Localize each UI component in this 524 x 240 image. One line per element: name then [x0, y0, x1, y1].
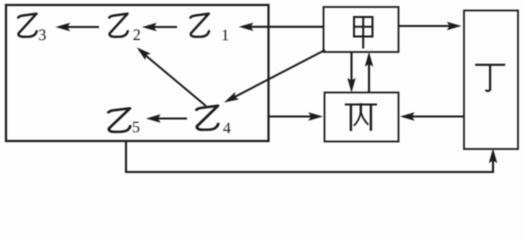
- arrow ecosystem box to 丙: [269, 113, 322, 120]
- box 丙: [325, 93, 399, 142]
- wire feedback loop from ecosystem box bottom to 丁 bottom: [126, 142, 493, 173]
- box 甲: [324, 7, 399, 52]
- arrow 甲 to 丁: [399, 22, 461, 29]
- label subscript 5: [133, 122, 139, 133]
- label subscript 4: [223, 123, 230, 134]
- arrow 丁 to 丙: [401, 113, 464, 120]
- glyph 乙5: [108, 108, 130, 132]
- arrow 乙4 diagonal to 乙2: [135, 45, 206, 106]
- glyph 乙3: [18, 14, 37, 37]
- arrow 丙 up to 甲: [365, 53, 372, 93]
- arrow 甲 diagonal to 乙4: [223, 50, 325, 105]
- box 丁: [464, 11, 518, 150]
- label subscript 2: [134, 29, 140, 40]
- arrowhead into 丁 bottom: [489, 150, 496, 163]
- glyph 甲: [354, 17, 373, 48]
- glyph 丁: [476, 65, 504, 91]
- label subscript 3: [39, 29, 46, 40]
- glyph 丙: [346, 105, 376, 130]
- glyph 乙2: [109, 14, 128, 37]
- arrow 甲 down to 丙: [348, 52, 355, 92]
- arrow 乙2 to 乙3: [57, 23, 100, 30]
- arrow 乙1 to 乙2: [143, 23, 177, 30]
- arrow 甲 to 乙1: [240, 23, 324, 30]
- arrow 乙4 to 乙5: [147, 115, 187, 122]
- glyph 乙4: [196, 106, 218, 130]
- glyph 乙1: [190, 14, 209, 37]
- box ecosystem (large left rectangle): [6, 5, 269, 141]
- label subscript 1: [223, 30, 229, 41]
